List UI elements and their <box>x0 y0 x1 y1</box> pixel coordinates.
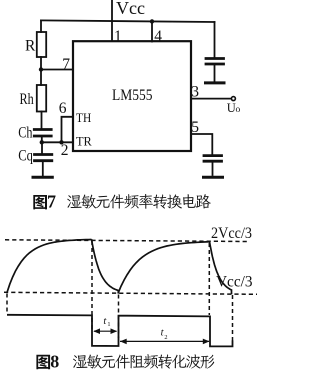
svg-text:Vcc/3: Vcc/3 <box>216 274 253 291</box>
op-amp U1 LM555 IC box <box>73 41 191 151</box>
wire Cq to ground <box>42 162 44 176</box>
svg-text:Ch: Ch <box>18 125 32 142</box>
svg-text:5: 5 <box>191 119 199 136</box>
node pin6 drop junction <box>59 140 63 144</box>
svg-text:TR: TR <box>76 134 92 149</box>
svg-text:Rh: Rh <box>20 91 34 108</box>
ground below C2 <box>204 176 223 179</box>
wire node to Cq <box>41 142 43 153</box>
svg-text:o: o <box>236 105 241 115</box>
resistor Rh <box>37 85 46 112</box>
dashed vline t1 start <box>91 241 93 329</box>
wire pin 3 output <box>191 98 231 100</box>
dashed vline t2 end <box>208 243 210 315</box>
capacitor C1 top right <box>206 59 224 65</box>
wire pin 6 link <box>62 117 74 143</box>
wire Ch to node <box>41 137 43 142</box>
svg-text:R: R <box>25 37 36 54</box>
svg-text:7: 7 <box>62 56 70 73</box>
wire pin 4 stub <box>151 21 153 41</box>
capacitor Ch <box>34 130 51 137</box>
caption figure 7 <box>33 192 210 212</box>
arrow t2 <box>120 339 210 345</box>
dashed vline left <box>6 294 8 314</box>
wire junction to Rh <box>40 70 42 86</box>
node pin4 junction <box>150 19 154 23</box>
wire C2 to ground <box>212 163 214 176</box>
svg-text:1: 1 <box>107 321 110 328</box>
svg-text:3: 3 <box>191 84 199 101</box>
node pin7 junction <box>39 67 43 71</box>
square wave output <box>7 315 233 347</box>
curve discharge 2 <box>210 241 232 294</box>
svg-text:1: 1 <box>114 28 122 45</box>
svg-text:2: 2 <box>61 142 69 159</box>
svg-text:TH: TH <box>76 110 91 125</box>
node TR junction left <box>40 140 44 144</box>
wire top rail down to C1 <box>214 22 216 58</box>
resistor R <box>37 32 46 57</box>
wire C1 to ground <box>214 65 216 81</box>
dashed vline period end <box>232 295 234 344</box>
dashed vline t1 end <box>118 295 120 339</box>
wire R bottom to junction <box>40 57 42 70</box>
wire pin 5 <box>191 134 212 154</box>
capacitor C2 pin5 <box>204 156 222 162</box>
dashed level Vcc/3 <box>4 292 257 294</box>
wire top horizontal rail <box>41 20 215 22</box>
svg-text:4: 4 <box>154 28 162 45</box>
svg-text:LM555: LM555 <box>112 87 153 104</box>
curve charge 1 <box>7 240 92 293</box>
wire pin 7 <box>41 69 73 71</box>
arrow t1 <box>93 328 117 334</box>
node Uo terminal <box>231 97 235 101</box>
wire R top <box>40 20 42 32</box>
wire Rh bottom to Ch <box>41 112 43 129</box>
svg-text:Cq: Cq <box>18 147 33 164</box>
caption figure 8 <box>36 351 214 371</box>
svg-text:6: 6 <box>59 100 67 117</box>
svg-text:Vcc: Vcc <box>116 0 145 18</box>
curve discharge 1 <box>92 239 119 293</box>
svg-text:2: 2 <box>164 334 167 341</box>
curve charge 2 <box>118 242 210 294</box>
svg-text:2Vcc/3: 2Vcc/3 <box>211 225 252 242</box>
ground below Cq <box>33 176 52 179</box>
svg-text:8: 8 <box>50 351 59 371</box>
ground below C1 <box>206 81 225 84</box>
dashed level 2Vcc/3 <box>5 240 248 242</box>
waveform figure 8 <box>4 239 257 346</box>
svg-text:U: U <box>227 101 236 115</box>
capacitor Cq <box>35 155 52 161</box>
wire pin 2 <box>42 141 73 143</box>
svg-text:7: 7 <box>47 192 56 212</box>
wire Vcc supply vertical to pin 1 <box>111 0 113 41</box>
